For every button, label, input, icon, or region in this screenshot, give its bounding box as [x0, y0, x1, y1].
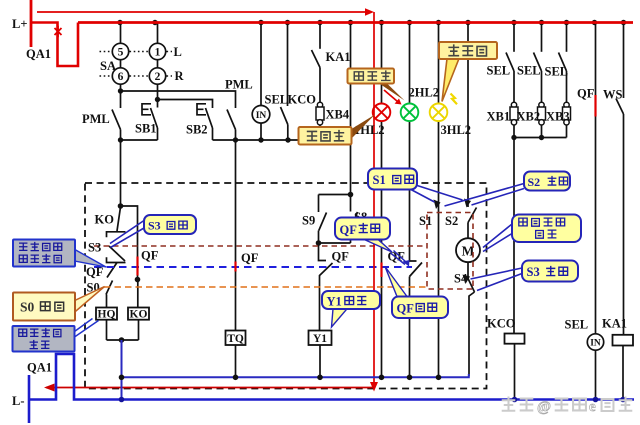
node blue bus dots — [119, 397, 626, 403]
wire lamp 1HL2 column upper — [381, 23, 383, 104]
lamp 2HL2 green — [401, 104, 419, 122]
wire SB1 bottom lead — [157, 128, 159, 140]
trip path red vertical — [373, 12, 375, 383]
callout 储能电机停转 pointers — [483, 224, 512, 252]
wire QF column right — [595, 23, 597, 334]
net blue dashed QF line — [94, 266, 412, 268]
wire SEL1-XB1 link — [513, 71, 515, 102]
callout S0闭合 box — [13, 293, 75, 321]
wire node to PML right jog — [121, 91, 236, 108]
wire HQ coil bottom — [106, 320, 108, 340]
wire SEL IN bottom lead — [595, 350, 597, 399]
node blue collector dots — [119, 375, 442, 381]
node junction dots: top bus, SA, rails, S9S8, KO, bypass, HQKO tie — [117, 20, 626, 343]
wire KA1 contact column top — [319, 23, 321, 49]
SA dotted leaders row 2 — [100, 75, 173, 77]
net orange dashed S0 line — [104, 286, 427, 288]
wire Y1 coil bottom — [319, 345, 321, 377]
wire SB1 top lead — [157, 100, 159, 108]
svg-text:IN: IN — [590, 339, 601, 349]
wire PML right bottom lead — [235, 130, 237, 141]
wire S9 bottom lead — [318, 231, 320, 244]
svg-text:KA1: KA1 — [602, 317, 627, 331]
contact S4 blade — [468, 279, 475, 293]
svg-text:SB2: SB2 — [186, 123, 208, 137]
wire lamp 1HL2 column lower — [381, 121, 383, 377]
svg-text:S1: S1 — [419, 214, 432, 228]
callout S2断开 pointers — [445, 184, 525, 207]
contact SEL2 blade — [534, 53, 542, 72]
callout Y1得电 box — [322, 291, 380, 309]
svg-text:QF: QF — [241, 251, 259, 265]
svg-text:QF: QF — [141, 249, 159, 263]
coil Y1 — [309, 331, 332, 346]
callout 开关辅助接点变换 box — [13, 240, 75, 267]
WIRES-BLACK — [106, 23, 624, 400]
trip path arrow left — [44, 384, 55, 392]
wire lamp 3HL2 S1 column upper — [438, 23, 440, 104]
tick QF closed red mark TQ — [234, 262, 236, 272]
wire HQ-KO bottom tie — [107, 339, 139, 341]
svg-text:KO: KO — [95, 213, 115, 227]
contact S0 blade — [106, 281, 113, 295]
callout 黄灯亮 box — [439, 42, 497, 59]
svg-text:S9: S9 — [302, 214, 315, 228]
callout 开关辅助接点变换 pointer — [75, 250, 106, 268]
wire circle6 to node — [120, 84, 122, 91]
wire column 350 upper — [350, 23, 352, 128]
bus L- terminal stub — [28, 375, 31, 423]
svg-text:SEL: SEL — [517, 64, 541, 78]
indicator IN circle left — [252, 106, 270, 124]
wire SEL2 column top — [541, 23, 543, 52]
svg-text:XB4: XB4 — [326, 108, 350, 122]
svg-text:KCO: KCO — [288, 93, 317, 107]
svg-text:QF: QF — [332, 250, 350, 264]
svg-text:@: @ — [537, 399, 551, 415]
svg-text:IN: IN — [256, 111, 267, 121]
lamp 3HL2 yellow — [430, 104, 448, 122]
wire KCO coil column — [513, 138, 515, 334]
bus L+ red top — [78, 21, 633, 24]
arrow contact S4 mark — [463, 275, 471, 285]
contact SEL1 blade — [506, 53, 514, 72]
svg-text:QA1: QA1 — [27, 361, 52, 375]
callout 合闸线圈失电 pointers — [75, 319, 99, 338]
svg-text:e: e — [589, 399, 596, 415]
contact KA1 blade — [312, 50, 321, 68]
connector XB3 — [563, 102, 571, 125]
callout QF断开 pointers — [362, 239, 392, 253]
tick QF closed red mark bypass — [136, 257, 138, 276]
callout S3闭合 box — [144, 215, 196, 234]
svg-text:S3: S3 — [527, 265, 540, 279]
svg-text:3HL2: 3HL2 — [441, 123, 472, 137]
wire S8 bottom lead — [350, 230, 352, 244]
wire WS column top — [623, 23, 625, 99]
svg-text:PML: PML — [82, 112, 110, 126]
net brown dashed S3 line — [94, 245, 427, 247]
wire rail B SB2 to red-callout — [213, 139, 299, 141]
svg-text:S0: S0 — [20, 300, 35, 315]
wire SEL1 column top — [513, 23, 515, 52]
callout 绿灯灭 pointer — [379, 83, 405, 101]
contact SB2 blade — [206, 108, 213, 128]
wire SEL2-XB2 link — [541, 71, 543, 102]
wire left column to KO — [120, 140, 122, 206]
lamp 1HL2 red — [373, 104, 391, 122]
contact KCO blade — [281, 107, 288, 125]
wire KO coil bottom — [138, 320, 140, 340]
breaker QA1 top red jog — [31, 23, 78, 67]
callout S3闭合 pointers — [110, 221, 144, 248]
wire XB2 bottom — [541, 123, 543, 138]
callout 红灯亮 box — [299, 127, 352, 145]
callout QF断开 box — [335, 218, 390, 240]
wire PML left top lead — [120, 91, 122, 108]
svg-text:XB2: XB2 — [517, 110, 541, 124]
wire KCO contact column upper — [287, 23, 289, 107]
SA contact circle 6 — [112, 68, 128, 84]
svg-text:QF: QF — [577, 87, 595, 101]
wire rail A SB1-PML — [121, 139, 158, 141]
wire SEL3 column top — [566, 23, 568, 52]
svg-text:WS: WS — [603, 88, 623, 102]
callout 绿灯灭 box — [348, 69, 395, 84]
svg-text:KA1: KA1 — [326, 50, 351, 64]
SA contact circle 5 — [112, 43, 128, 59]
connector XB2 — [538, 102, 546, 125]
coil TQ — [226, 331, 246, 346]
wire S8 top lead — [350, 195, 352, 212]
wire KCO contact bottom lead — [287, 125, 289, 141]
callout S3断开 box — [522, 261, 578, 282]
svg-text:Y1: Y1 — [327, 295, 342, 309]
wire S0 to HQ coil — [106, 295, 108, 308]
wire XB tie rail — [514, 137, 567, 139]
svg-text:KO: KO — [130, 309, 148, 321]
watermark 头条 logo text — [502, 397, 633, 415]
coil HQ — [96, 308, 117, 321]
wire IN column lower — [260, 123, 262, 140]
svg-text:PML: PML — [225, 78, 253, 92]
breaker QA1 bottom blue jog and L- bus — [29, 354, 634, 400]
svg-text:QF: QF — [86, 265, 104, 279]
callout 红灯亮 pointer — [349, 115, 375, 138]
wire WS to KA1 coil — [623, 114, 625, 335]
callout Y1得电 pointer — [332, 309, 348, 327]
contact SEL3 blade — [559, 53, 567, 72]
callout S1闭合 box — [368, 169, 417, 190]
contact S3 lower bracket — [107, 257, 126, 262]
wire S9 top lead — [318, 195, 320, 213]
trip path arrow right — [365, 8, 374, 16]
wire SA circle 5 top lead — [120, 23, 122, 44]
svg-text:SA: SA — [100, 59, 116, 73]
wire TQ column — [235, 140, 237, 331]
wire lamp 2HL2 column mid — [410, 121, 417, 261]
wire blue collector — [122, 374, 469, 377]
contact SB1 blade — [151, 108, 158, 128]
wire PML left bottom lead — [120, 130, 122, 141]
wire XB3 bottom — [566, 123, 568, 138]
wire SA 1-2 link — [157, 60, 159, 68]
callout QF闭合 box — [392, 297, 448, 319]
callout S3断开 pointers — [471, 268, 523, 291]
wire Y1 QF contact top lead — [319, 243, 327, 261]
wire circle2 to node — [157, 84, 159, 99]
connector XB4 — [316, 102, 324, 125]
contact PML right blade — [227, 110, 236, 130]
svg-text:6: 6 — [118, 71, 124, 83]
wire QF to Y1 coil — [319, 276, 321, 331]
svg-text:2: 2 — [155, 71, 161, 83]
svg-text:2HL2: 2HL2 — [409, 86, 440, 100]
contact S3 upper bracket — [107, 232, 126, 237]
contact QF blade left column — [107, 263, 117, 278]
svg-text:QA1: QA1 — [26, 47, 51, 61]
contact S8 blade — [351, 212, 358, 230]
wire XB4 bottom into callout — [319, 123, 321, 128]
arrow contact S1 mark — [434, 200, 441, 210]
wire S9-S8 top tie — [319, 194, 351, 196]
svg-text:S2: S2 — [445, 214, 458, 228]
callout S2断开 box — [524, 172, 570, 191]
svg-text:R: R — [175, 69, 185, 83]
wire KO bypass branch — [121, 206, 138, 280]
contact S3 blade — [109, 246, 125, 261]
svg-text:QF: QF — [397, 302, 415, 316]
wire SA 5-6 link — [120, 60, 122, 68]
contact S2 blade — [468, 208, 477, 223]
wire motor to S4 — [467, 262, 469, 278]
svg-text:S2: S2 — [528, 175, 541, 189]
coil KA1 — [613, 335, 634, 346]
svg-text:QF: QF — [340, 223, 358, 237]
contact S9 blade — [319, 213, 327, 231]
wire S2 to motor — [467, 223, 469, 239]
arrow contact S2 mark — [464, 199, 471, 208]
callout S0闭合 pointer — [75, 287, 105, 313]
svg-text:L: L — [174, 45, 182, 59]
svg-text:XB1: XB1 — [487, 110, 511, 124]
wire bypass to KO coil — [137, 280, 139, 308]
trip path red bottom line — [46, 387, 374, 389]
svg-text:S4: S4 — [454, 272, 468, 286]
svg-text:HQ: HQ — [98, 309, 116, 321]
tick QF closed red mark right — [594, 95, 596, 117]
svg-text:KCO: KCO — [487, 317, 516, 331]
trip path red thin top line — [37, 11, 368, 13]
svg-text:SEL: SEL — [265, 93, 289, 107]
SA contact circle 2 — [149, 68, 165, 84]
motor brown dashed box — [427, 213, 473, 290]
svg-text:L-: L- — [12, 394, 25, 408]
wire blue HQKO drop — [121, 340, 123, 400]
tick QF closed red mark 1HL2 — [380, 263, 382, 278]
callout 合闸线圈失电 box — [13, 326, 75, 352]
wire SEL3-XB3 link — [566, 71, 568, 102]
svg-text:S3: S3 — [88, 241, 101, 255]
svg-text:TQ: TQ — [227, 333, 244, 345]
wire SA circle 1 top lead — [157, 23, 159, 44]
wire TQ coil bottom — [235, 345, 237, 377]
contact WS blade — [616, 99, 624, 115]
wire S9-S8 bottom tie — [319, 242, 351, 244]
callout S1闭合 pointers — [410, 185, 463, 203]
SA contact circle 1 — [149, 43, 165, 59]
wire lamp 3HL2 S1 column lower — [438, 121, 440, 377]
contact QF blade Y1 branch — [319, 263, 333, 276]
svg-text:XB3: XB3 — [546, 110, 570, 124]
coil KCO — [505, 334, 525, 344]
wire IN column upper — [260, 23, 262, 106]
svg-text:S1: S1 — [373, 173, 386, 187]
motor M — [456, 238, 480, 262]
svg-text:SEL: SEL — [487, 64, 511, 78]
trip path arrow down — [370, 382, 378, 392]
contact SB2 button — [197, 104, 206, 115]
contact QF blade 2HL2 branch — [410, 263, 423, 277]
wire S4 bottom lead — [469, 292, 475, 376]
svg-text:SB1: SB1 — [135, 122, 157, 136]
wire KA1 coil bottom — [622, 346, 624, 400]
svg-text:1: 1 — [155, 47, 161, 59]
callout 黄灯亮 pointer — [442, 59, 459, 102]
wire lamp 2HL2 column upper — [409, 23, 411, 104]
wire KA1-XB4 link — [319, 68, 321, 103]
svg-text:5: 5 — [118, 47, 124, 59]
SA dotted leaders row 1 — [100, 51, 173, 53]
svg-text:SEL: SEL — [545, 65, 569, 79]
breaker QA1 star mark — [55, 26, 62, 37]
wire S2 column top — [467, 23, 469, 208]
contact PML left blade — [112, 110, 121, 130]
bus L+ terminal stub — [30, 0, 33, 47]
wire 2HL2 column lower — [409, 277, 411, 378]
indicator IN circle right — [587, 334, 603, 350]
svg-text:L+: L+ — [12, 17, 27, 31]
coil KO — [128, 308, 149, 321]
svg-text:S3: S3 — [148, 219, 161, 233]
wire column 350 below callout — [350, 145, 352, 195]
wire SB2 bottom lead — [212, 128, 214, 140]
breaker boundary dashed box — [85, 183, 487, 389]
svg-text:SEL: SEL — [565, 318, 589, 332]
wire node to SB2 jog — [158, 100, 213, 109]
contact KO blade — [117, 207, 121, 231]
contact SB1 button — [142, 104, 151, 115]
connector XB1 — [510, 102, 518, 125]
callout QF闭合 pointer — [385, 267, 407, 297]
wire XB1 bottom — [513, 123, 515, 138]
wire KCO coil bottom — [514, 344, 516, 400]
callout 储能电机停转 box — [512, 215, 581, 243]
svg-text:Y1: Y1 — [313, 333, 327, 345]
